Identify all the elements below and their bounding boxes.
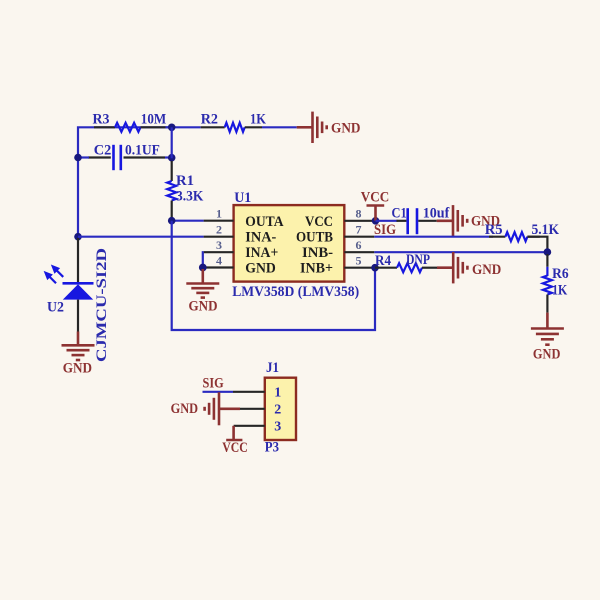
label C2 [94,143,112,159]
pin 1 of U1 [204,220,234,222]
LED U2 pin bottom [77,300,79,332]
pin number 7 [356,223,362,237]
value 1K [250,111,266,127]
net label SIG at pin7 [374,222,396,238]
wire feedback loop [172,221,375,330]
junction pin2 row left rail [74,233,82,241]
label J1 [266,360,279,376]
label LMV358D (LMV358) [232,284,359,300]
wire top junction to C2 junction [171,127,173,158]
ground GND at J1 [205,392,219,425]
svg-text:1: 1 [274,385,281,400]
pin 5 of U1 [344,267,375,269]
ground GND under LED [62,345,95,360]
pin number 3 [216,238,222,252]
net label GND at J1 [171,401,199,417]
pin name GND [245,261,276,277]
value 1K at R6 [552,283,567,299]
svg-text:C2: C2 [94,143,112,159]
LED U2 [63,283,94,299]
junction pin4 node [199,264,207,272]
LED U2 emission arrow 1 [48,262,66,280]
pin name INB- [302,245,333,261]
wire R5 elbow down to pin6 row [527,237,547,250]
net label GND under U1 [189,299,218,315]
pin name INB+ [300,261,333,277]
pin 8 of U1 [344,220,375,222]
svg-text:U2: U2 [47,299,64,315]
pin name INA- [245,230,276,246]
svg-text:3: 3 [216,238,222,252]
svg-text:1: 1 [216,207,222,221]
svg-text:R3: R3 [93,111,110,127]
net label GND at R2 [331,121,361,137]
svg-text:1K: 1K [250,111,266,127]
net label GND under LED [63,361,92,377]
svg-text:CJMCU-SI2D: CJMCU-SI2D [94,248,110,362]
wire pin2 to left rail [78,236,204,238]
wire C2 right stub [165,156,172,158]
resistor R6 [543,254,552,313]
svg-text:2: 2 [274,402,281,417]
pin name VCC [305,214,333,230]
ground GND under R6 [531,329,564,345]
junction C2 left [74,154,82,162]
label P3 [265,439,279,455]
svg-text:10uf: 10uf [423,206,451,222]
ground stub under LED [77,332,80,346]
net label GND at R4 [472,262,501,278]
wire left rail top corner [78,127,172,240]
svg-text:GND: GND [189,299,218,315]
wire R2 to ground [262,126,313,128]
svg-text:DNP: DNP [406,252,430,268]
op-amp U1 body [234,205,345,282]
capacitor C1 [376,208,454,234]
resistor R2 [201,123,262,132]
label C1 [392,206,407,222]
pin number 1 [216,207,222,221]
pin 3 of J1 [234,425,265,427]
svg-text:INB-: INB- [302,245,333,261]
svg-text:R4: R4 [375,253,391,269]
wire pin3 elbow down [202,252,205,267]
svg-text:5: 5 [356,253,362,267]
svg-text:3: 3 [274,419,281,434]
value DNP [406,252,430,268]
svg-text:GND: GND [472,262,501,278]
svg-text:4: 4 [216,253,222,267]
svg-text:2: 2 [216,223,222,237]
net label GND under R6 [533,347,561,363]
pin 7 of U1 [344,236,374,238]
svg-text:INA-: INA- [245,230,276,246]
pin number 2 [216,223,222,237]
power VCC at J1 [226,426,242,440]
ground stub under pin4 [202,269,205,284]
value 10M [141,111,166,127]
svg-text:8: 8 [356,207,362,221]
resistor R4 [375,263,437,272]
pin number 2 of J1 [274,402,281,417]
pin number 6 [356,238,362,252]
pin name OUTA [245,214,283,230]
svg-text:GND: GND [63,361,92,377]
label R4 [375,253,391,269]
junction pin5 node [371,264,379,272]
svg-text:GND: GND [245,261,276,277]
wire pin6 to R6 junction [374,251,547,253]
junction R1 bottom [168,217,176,225]
label R5 [485,222,503,238]
svg-text:GND: GND [331,121,361,137]
wire R3 to R2 junction [166,126,201,128]
pin number 1 of J1 [274,385,281,400]
pin 6 of U1 [344,251,374,253]
svg-text:INB+: INB+ [300,261,333,277]
junction pin8 node [372,217,380,225]
pin 2 of U1 [204,236,234,238]
label U2 [47,299,64,315]
power VCC at pin8 [367,206,385,221]
pin 4 of U1 [203,266,234,268]
svg-text:OUTB: OUTB [296,230,333,246]
resistor R1 [167,161,176,221]
ground GND under U1 pin4 [186,284,219,298]
ground wire at J1 pin2 [219,407,240,410]
label R3 [93,111,110,127]
pin name INA+ [245,245,278,261]
pin 2 of J1 [240,408,265,410]
value 0.1UF [125,143,160,159]
svg-text:U1: U1 [234,190,251,206]
svg-text:INA+: INA+ [245,245,278,261]
svg-text:7: 7 [356,223,362,237]
LED U2 pin top [77,238,79,283]
junction top row node [168,124,176,132]
svg-text:R5: R5 [485,222,503,238]
wire pin7 to R5 [374,236,493,238]
value 3.3K [176,189,204,205]
pin number 3 of J1 [274,419,281,434]
ground GND at C1 [453,205,467,236]
wire R4 to ground [437,266,453,269]
resistor R3 [94,123,166,132]
svg-text:P3: P3 [265,439,279,455]
connector J1 body [265,378,296,440]
svg-text:C1: C1 [392,206,407,222]
pin number 4 [216,253,222,267]
ground GND at R4 [453,252,467,283]
capacitor C2 [88,145,165,170]
svg-text:GND: GND [171,401,199,417]
wire C2 left stub [78,156,89,158]
svg-text:R2: R2 [201,111,218,127]
svg-text:0.1UF: 0.1UF [125,143,160,159]
svg-text:VCC: VCC [305,214,333,230]
svg-text:R1: R1 [176,173,194,189]
value 10uf [423,206,451,222]
label U1 [234,190,251,206]
net label VCC at pin8 [361,190,390,206]
svg-text:J1: J1 [266,360,279,376]
pin 3 of U1 [204,251,234,253]
label R2 [201,111,218,127]
label CJMCU-SI2D [94,248,110,362]
net label VCC at J1 [222,440,248,456]
svg-text:VCC: VCC [361,190,390,206]
pin 1 of J1 [233,391,265,393]
svg-text:6: 6 [356,238,362,252]
net label SIG at J1 [203,376,224,392]
junction C2 right [168,154,176,162]
svg-text:R6: R6 [552,266,569,282]
pin number 8 [356,207,362,221]
junction R6 top node [544,248,552,256]
value 5.1K [532,222,560,238]
svg-text:SIG: SIG [203,376,224,392]
pin name OUTB [296,230,333,246]
net label GND at C1 [471,214,500,230]
svg-text:3.3K: 3.3K [176,189,204,205]
label R1 [176,173,194,189]
svg-text:1K: 1K [552,283,567,299]
label R6 [552,266,569,282]
resistor R5 [489,232,540,241]
LED U2 emission arrow 2 [41,268,59,286]
wire pin1 to R1 [172,220,204,222]
svg-text:10M: 10M [141,111,166,127]
ground stub under R6 [546,313,549,329]
svg-text:LMV358D (LMV358): LMV358D (LMV358) [232,284,359,300]
pin number 5 [356,253,362,267]
ground GND at R2 [313,112,327,143]
svg-text:VCC: VCC [222,440,248,456]
svg-text:OUTA: OUTA [245,214,283,230]
wire SIG at J1 [203,391,234,393]
svg-text:GND: GND [533,347,561,363]
